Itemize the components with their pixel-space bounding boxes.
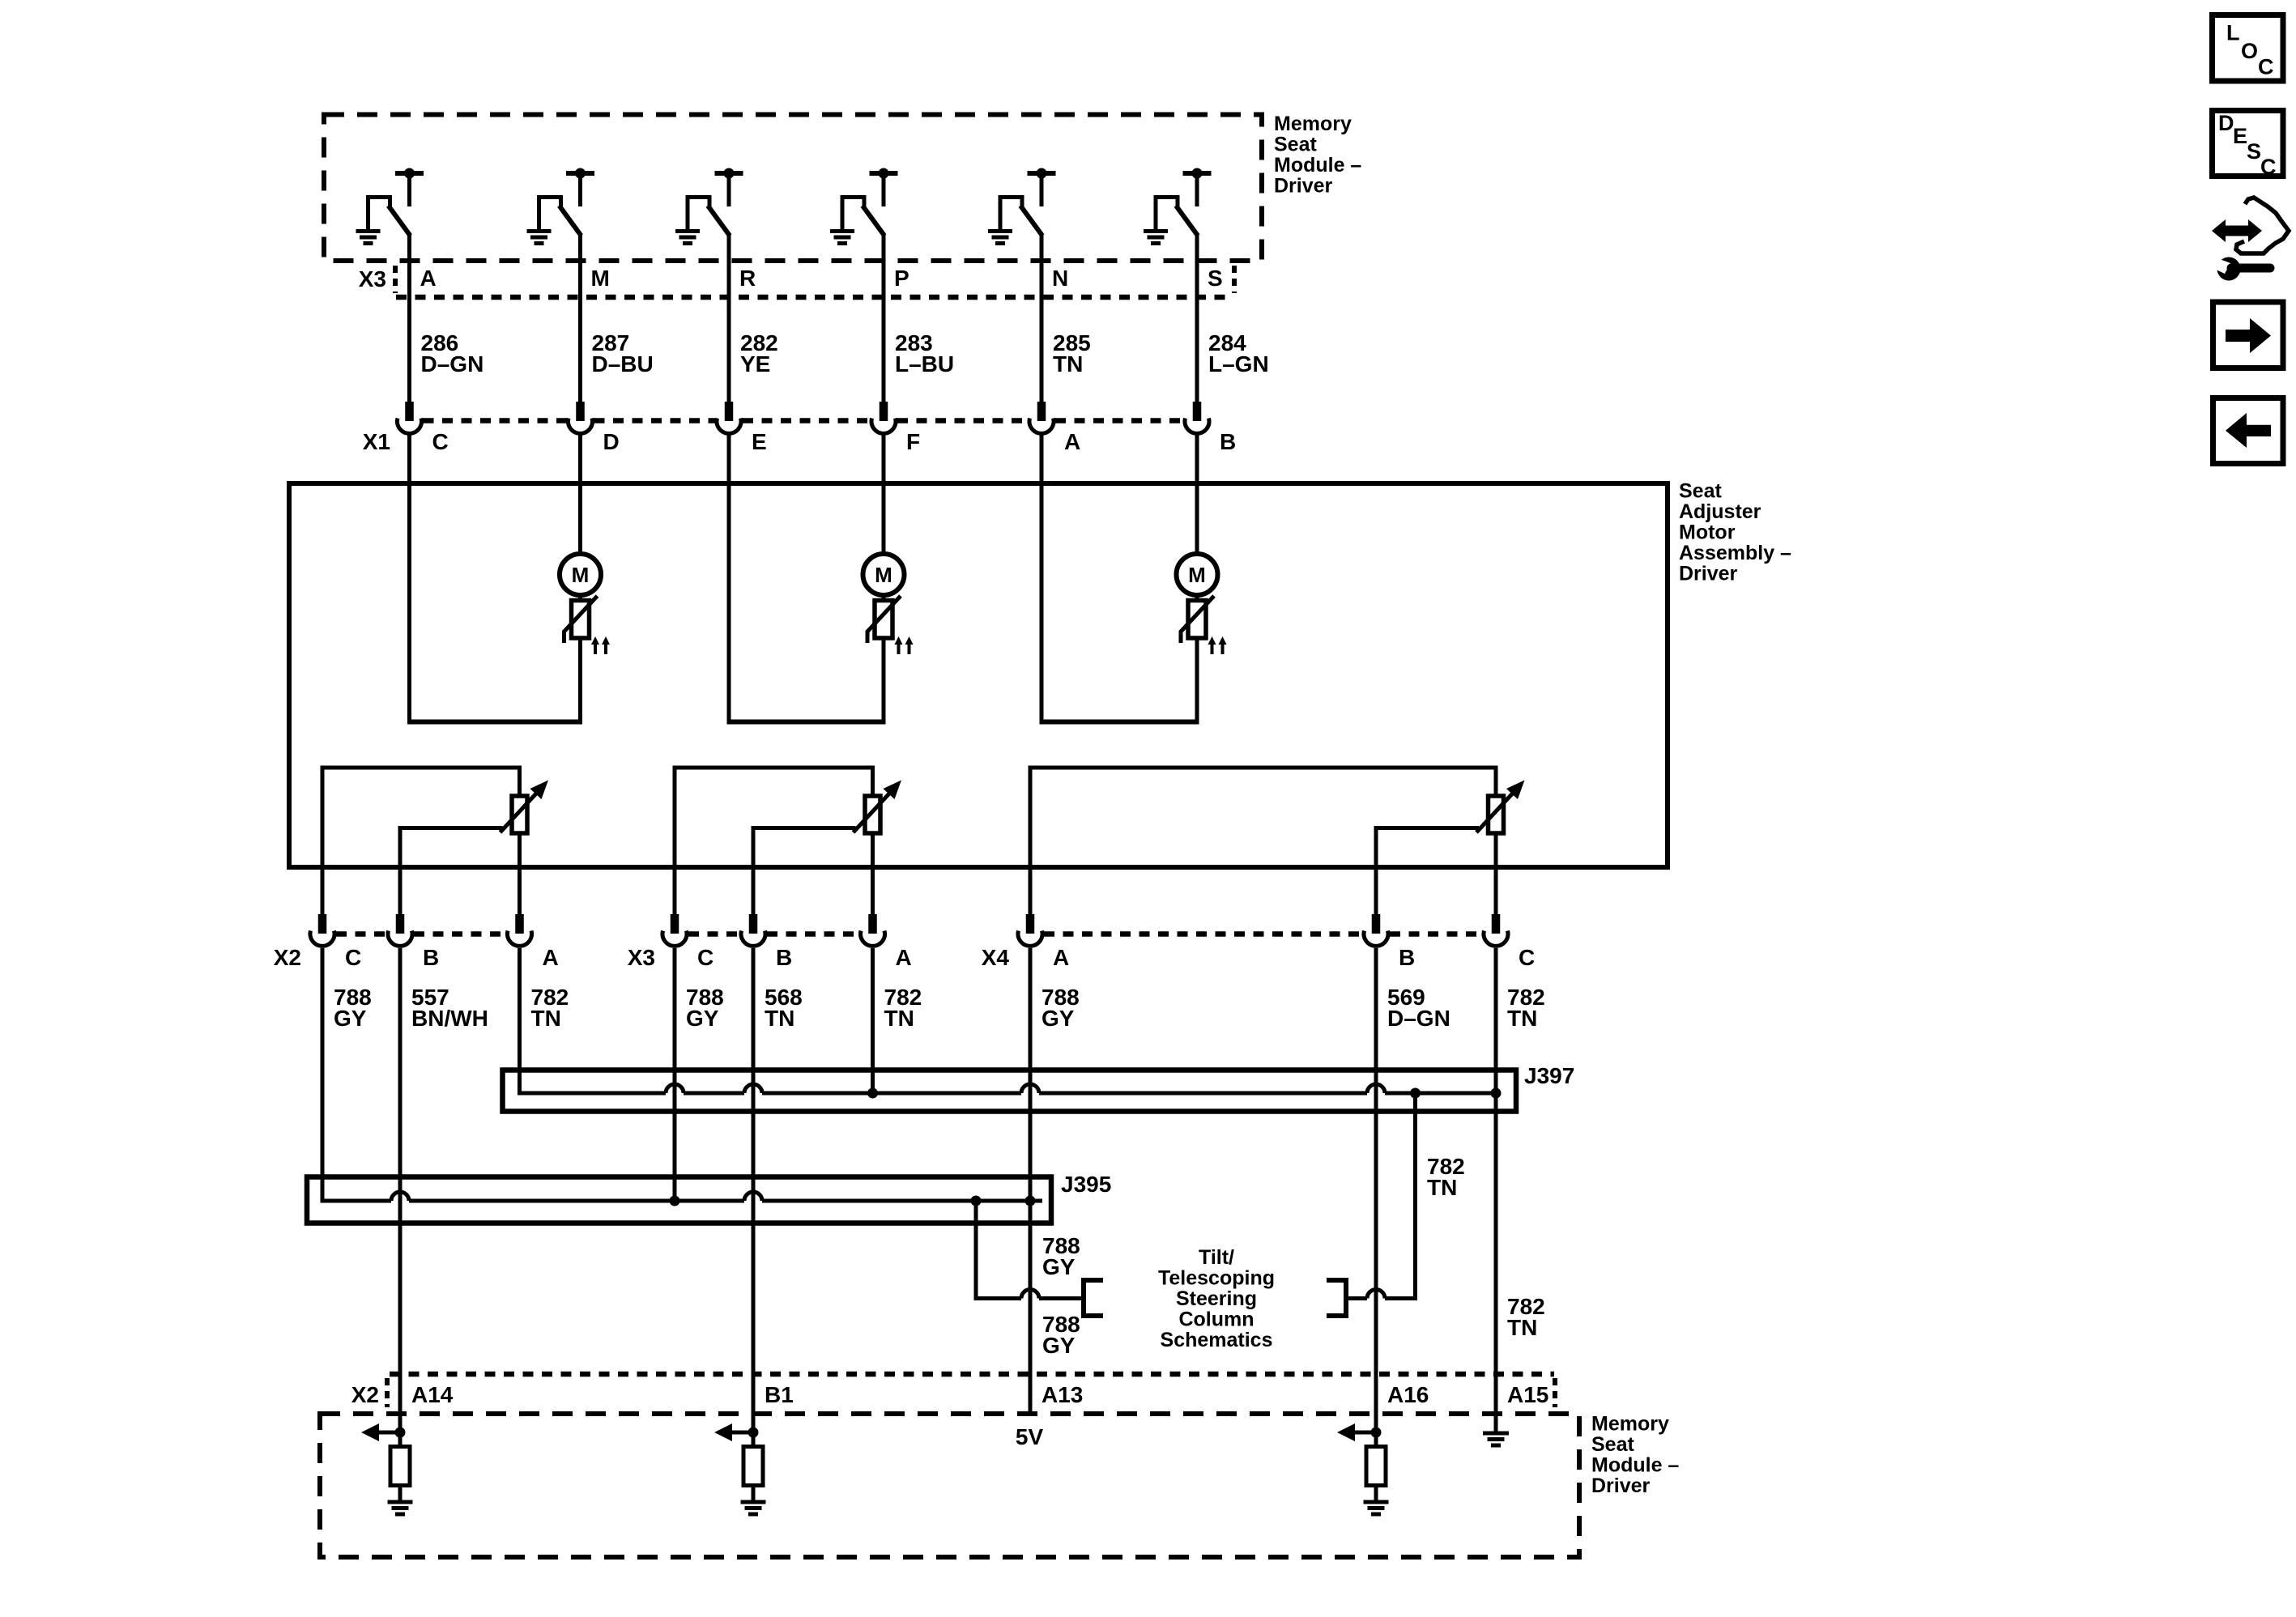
wire label 788 GY (lower) [1042, 1312, 1080, 1358]
splice J397 box [503, 1070, 1517, 1112]
connector X3 pin B [741, 914, 765, 946]
connector X2 pin C [310, 914, 334, 946]
switch S4 (pin P) [841, 168, 898, 236]
switch S5 (pin N) [999, 168, 1056, 236]
wire motor 1 left [407, 432, 411, 722]
wire label 788 GY [334, 985, 372, 1031]
wire pot 1 top stub [518, 768, 522, 797]
switch S2 (pin M) [537, 168, 594, 236]
svg-text:Driver: Driver [1591, 1474, 1651, 1497]
wire label 557 BN/WH [411, 985, 488, 1031]
separator X2 bottom left [385, 1378, 390, 1407]
connector X2 pin B [388, 914, 412, 946]
connector X3 row (dotted) [396, 295, 1232, 300]
icon LOC box [2213, 15, 2284, 82]
wire pot 1 wiper [400, 826, 503, 830]
svg-text:Memory: Memory [1591, 1413, 1669, 1436]
wire X4-C down [1494, 948, 1498, 1374]
svg-text:L–BU: L–BU [895, 351, 954, 377]
junction (branch 788 GY) [971, 1196, 982, 1206]
wire label 286 D–GN [421, 330, 484, 377]
svg-text:TN: TN [1053, 351, 1083, 377]
net 782 TN bus (J397) [520, 1084, 1499, 1093]
svg-text:TN: TN [531, 1006, 561, 1031]
svg-text:Assembly –: Assembly – [1679, 542, 1791, 564]
connector X1 pin E [717, 402, 741, 433]
ground (A16) [1364, 1502, 1389, 1514]
wire motor 1 bottom [407, 720, 582, 725]
icon arrow right box [2213, 302, 2284, 368]
svg-text:D–GN: D–GN [421, 351, 484, 377]
ground (switch S6) [1144, 232, 1168, 244]
svg-text:P: P [894, 266, 909, 291]
in-line connector half (782 TN) [1327, 1278, 1346, 1318]
svg-text:J395: J395 [1061, 1172, 1111, 1197]
svg-text:L: L [2226, 21, 2240, 45]
wire pot 2 bottom [871, 833, 875, 914]
wire X2-B down [398, 948, 403, 1374]
wire B1 into module [752, 1372, 756, 1432]
splice J395 box [307, 1177, 1051, 1223]
position sensor potentiometer (pot 3) [1476, 781, 1525, 834]
junction (A16) [1371, 1428, 1382, 1438]
wire motor 3 to PTC [1195, 594, 1199, 602]
wire PTC to bottom (motor 2) [882, 638, 886, 722]
position sensor potentiometer (pot 2) [854, 781, 902, 834]
switch S3 (pin R) [686, 168, 743, 236]
svg-text:M: M [572, 563, 590, 587]
wire pin M to X1 [578, 233, 582, 402]
connector X3 pin C [662, 914, 687, 946]
wire pot 3 wiper [1376, 826, 1479, 830]
svg-text:TN: TN [765, 1006, 794, 1031]
svg-text:Module –: Module – [1274, 154, 1361, 177]
label Seat Adjuster Motor Assembly - Driver [1679, 480, 1791, 585]
ground (B1) [741, 1502, 766, 1514]
wire pot 2 left [673, 766, 677, 915]
svg-text:J397: J397 [1524, 1063, 1574, 1088]
svg-text:TN: TN [1507, 1315, 1537, 1340]
wire motor 3 left [1040, 432, 1044, 722]
svg-text:5V: 5V [1016, 1424, 1044, 1449]
wire X4-B down [1374, 948, 1378, 1374]
svg-text:O: O [2241, 39, 2258, 63]
wire motor 2 right upper [882, 432, 886, 555]
switch S1 (pin A) [366, 168, 424, 236]
svg-text:A15: A15 [1507, 1382, 1548, 1407]
svg-text:C: C [2260, 155, 2277, 179]
svg-text:E: E [752, 429, 767, 454]
svg-text:Steering: Steering [1176, 1287, 1257, 1310]
svg-text:S: S [1208, 266, 1223, 291]
svg-text:Seat: Seat [1591, 1433, 1634, 1456]
ground (A14) [388, 1502, 413, 1514]
svg-text:X4: X4 [982, 945, 1010, 970]
svg-text:N: N [1052, 266, 1068, 291]
wire pot 1 left [321, 766, 325, 915]
svg-text:X2: X2 [351, 1382, 379, 1407]
svg-text:Schematics: Schematics [1161, 1329, 1273, 1351]
svg-text:C: C [432, 429, 449, 454]
icon DESC box [2213, 111, 2284, 180]
wire motor 1 right upper [578, 432, 582, 555]
wire label 782 TN (branch) [1427, 1154, 1465, 1200]
svg-text:BN/WH: BN/WH [411, 1006, 488, 1031]
Seat Adjuster Motor Assembly - Driver box [289, 483, 1668, 867]
svg-text:C: C [1519, 945, 1535, 970]
label Memory Seat Module - Driver (bottom) [1591, 1413, 1679, 1498]
svg-text:A: A [1064, 429, 1080, 454]
resistor (pull-up A16) [1366, 1432, 1386, 1500]
svg-text:TN: TN [884, 1006, 914, 1031]
wire pot 1 wiper vertical [398, 826, 403, 914]
wire motor 2 left [727, 432, 731, 722]
wire label 284 L–GN [1208, 330, 1269, 377]
svg-text:C: C [2258, 55, 2274, 79]
svg-text:X1: X1 [363, 429, 390, 454]
connector X4 pin B [1364, 914, 1388, 946]
wire label 782 TN [1507, 985, 1545, 1031]
svg-text:D: D [603, 429, 620, 454]
resistor (pull-up B1) [743, 1432, 763, 1500]
svg-text:M: M [1188, 563, 1206, 587]
ground (switch S3) [675, 232, 700, 244]
svg-text:X2: X2 [274, 945, 301, 970]
svg-text:A: A [896, 945, 912, 970]
wire pin A to X1 [407, 233, 411, 402]
motor M1 [560, 554, 601, 595]
connector X1 pin C [398, 402, 422, 433]
svg-text:M: M [875, 563, 892, 587]
junction (X4-A to bus) [1025, 1196, 1036, 1206]
wire X2-C to J395 [321, 948, 325, 1203]
svg-text:Seat: Seat [1274, 134, 1317, 156]
connector X1 pin D [569, 402, 593, 433]
junction (branch 782 TN) [1410, 1088, 1421, 1099]
svg-text:Column: Column [1178, 1308, 1254, 1331]
wire motor 2 bottom [727, 720, 886, 725]
svg-text:B: B [1220, 429, 1236, 454]
wire label 782 TN [531, 985, 569, 1031]
wire label 287 D–BU [592, 330, 654, 377]
wire label 788 GY [686, 985, 724, 1031]
arrows up (motor 1 sensor) [591, 636, 610, 654]
svg-text:TN: TN [1507, 1006, 1537, 1031]
wire label 788 GY [1042, 985, 1080, 1031]
connector X4 row (dotted) [1044, 931, 1482, 936]
svg-text:M: M [591, 266, 610, 291]
wire X3-C to J395 [673, 948, 677, 1201]
wire A14 into module [398, 1372, 403, 1432]
svg-text:GY: GY [686, 1006, 719, 1031]
wire pot 2 top stub [871, 768, 875, 797]
wire pot 2 top [673, 766, 875, 770]
wire PTC to bottom (motor 1) [578, 638, 582, 722]
svg-text:L–GN: L–GN [1208, 351, 1269, 377]
icon adjust (hand with wrench) [2212, 198, 2289, 281]
signal arrow (A16) [1337, 1423, 1376, 1441]
wire A16 into module [1374, 1372, 1378, 1432]
position sensor potentiometer (pot 1) [501, 781, 549, 834]
wire motor 3 bottom [1040, 720, 1199, 725]
svg-text:B: B [1399, 945, 1415, 970]
arrows up (motor 3 sensor) [1208, 636, 1227, 654]
svg-text:F: F [906, 429, 920, 454]
wire label 285 TN [1053, 330, 1091, 377]
connector X2 pin A [508, 914, 532, 946]
label Memory Seat Module - Driver (top) [1274, 113, 1361, 198]
svg-text:B1: B1 [765, 1382, 794, 1407]
svg-text:D–GN: D–GN [1387, 1006, 1450, 1031]
svg-text:X3: X3 [628, 945, 655, 970]
svg-text:Adjuster: Adjuster [1679, 500, 1761, 523]
switch S6 (pin S) [1154, 168, 1212, 236]
svg-text:GY: GY [1042, 1006, 1075, 1031]
junction (B1) [748, 1428, 759, 1438]
junction (X3-A to bus) [867, 1088, 878, 1099]
wire label 283 L–BU [895, 330, 954, 377]
wire label 782 TN [884, 985, 922, 1031]
wire PTC to bottom (motor 3) [1195, 638, 1199, 722]
svg-text:Driver: Driver [1274, 175, 1333, 198]
wire pin S to X1 [1195, 233, 1199, 402]
wire pot 3 left [1029, 766, 1033, 915]
wire X4-A down [1029, 948, 1033, 1413]
motor M3 [1177, 554, 1218, 595]
wire pin P to X1 [882, 233, 886, 402]
wire branch 788 GY to connector [976, 1290, 1084, 1299]
PTC resistor (motor 1) [564, 596, 598, 643]
net 788 GY bus (J395) [322, 1192, 1042, 1201]
svg-text:B: B [776, 945, 792, 970]
Memory Seat Module - Driver box (bottom) [320, 1414, 1579, 1557]
PTC resistor (motor 2) [867, 596, 901, 643]
wire pot 2 wiper [753, 826, 856, 830]
wire X2-A to J397 [518, 948, 522, 1096]
arrows up (motor 2 sensor) [895, 636, 914, 654]
wire motor 1 to PTC [578, 594, 582, 602]
svg-text:Tilt/: Tilt/ [1199, 1246, 1234, 1269]
ground (switch S1) [356, 232, 381, 244]
PTC resistor (motor 3) [1181, 596, 1214, 643]
connector X4 pin A [1018, 914, 1042, 946]
svg-text:S: S [2247, 139, 2261, 164]
in-line connector half (788 GY) [1084, 1278, 1103, 1318]
wire pin R to X1 [727, 233, 731, 402]
svg-text:Driver: Driver [1679, 563, 1738, 585]
svg-text:D–BU: D–BU [592, 351, 654, 377]
motor M2 [863, 554, 905, 595]
svg-text:B: B [423, 945, 439, 970]
wire pin N to X1 [1040, 233, 1044, 402]
svg-text:Seat: Seat [1679, 480, 1722, 503]
note Tilt/Telescoping Steering Column Schematics [1158, 1246, 1275, 1351]
svg-text:Motor: Motor [1679, 521, 1736, 544]
wire motor 2 to PTC [882, 594, 886, 602]
wire branch 788 GY down [974, 1201, 978, 1300]
svg-text:A16: A16 [1387, 1382, 1429, 1407]
connector X2 row bottom (dotted) [390, 1372, 1554, 1377]
wire branch 782 TN to connector [1346, 1290, 1416, 1299]
svg-text:A14: A14 [411, 1382, 454, 1407]
connector X1 pin B [1185, 402, 1209, 433]
ground (switch S2) [527, 232, 552, 244]
signal arrow (A14) [361, 1423, 400, 1441]
wire X3-B down [752, 948, 756, 1374]
wire motor 3 right upper [1195, 432, 1199, 555]
connector X4 pin C [1484, 914, 1508, 946]
wire pot 3 wiper vertical [1374, 826, 1378, 914]
junction (A14) [395, 1428, 406, 1438]
junction (X4-C to bus) [1491, 1088, 1502, 1099]
svg-text:Module –: Module – [1591, 1454, 1679, 1477]
svg-text:GY: GY [1042, 1254, 1076, 1279]
svg-text:A: A [1053, 945, 1069, 970]
wire pot 2 wiper vertical [752, 826, 756, 914]
svg-text:D: D [2218, 111, 2234, 135]
svg-text:GY: GY [1042, 1333, 1076, 1358]
wire label 568 TN [765, 985, 803, 1031]
connector X3 pin A [861, 914, 885, 946]
wire pot 3 top stub [1494, 768, 1498, 797]
wire pot 1 top [321, 766, 522, 770]
ground (A15) [1483, 1433, 1509, 1445]
separator X3 left [393, 266, 398, 293]
ground (switch S4) [830, 232, 854, 244]
svg-text:A: A [543, 945, 559, 970]
svg-text:Memory: Memory [1274, 113, 1352, 135]
connector X1 pin F [871, 402, 896, 433]
ground (switch S5) [988, 232, 1012, 244]
wire pot 3 bottom [1494, 833, 1498, 914]
svg-text:E: E [2233, 124, 2247, 148]
wire label 569 D–GN [1387, 985, 1450, 1031]
connector X2 row (dotted) [336, 931, 506, 936]
junction (X3-C to bus) [670, 1196, 680, 1206]
wire A15 into module [1494, 1372, 1498, 1432]
connector X3 row (dotted) [688, 931, 859, 936]
svg-text:A: A [420, 266, 437, 291]
wire label 782 TN (to A15) [1507, 1294, 1545, 1340]
svg-text:C: C [697, 945, 714, 970]
wire pot 3 top [1029, 766, 1498, 770]
svg-text:GY: GY [334, 1006, 367, 1031]
signal arrow (B1) [714, 1423, 753, 1441]
svg-text:TN: TN [1427, 1175, 1457, 1200]
connector X1 row (dotted) [424, 418, 1184, 423]
svg-text:C: C [345, 945, 361, 970]
wire X3-A to J397 [871, 948, 875, 1093]
svg-text:X3: X3 [359, 266, 386, 291]
Memory Seat Module - Driver box (top) [324, 115, 1262, 262]
connector X1 pin A [1029, 402, 1054, 433]
resistor (pull-up A14) [390, 1432, 410, 1500]
separator X3 right [1232, 266, 1237, 293]
svg-text:R: R [739, 266, 756, 291]
icon arrow left box [2213, 398, 2284, 464]
wire pot 1 bottom [518, 833, 522, 914]
wire label 282 YE [740, 330, 778, 377]
separator X2 bottom right [1553, 1378, 1557, 1407]
wire branch 782 TN down [1413, 1093, 1417, 1300]
svg-text:A13: A13 [1042, 1382, 1083, 1407]
wire label 788 GY (upper) [1042, 1233, 1080, 1279]
svg-text:Telescoping: Telescoping [1158, 1267, 1275, 1290]
svg-text:YE: YE [740, 351, 770, 377]
